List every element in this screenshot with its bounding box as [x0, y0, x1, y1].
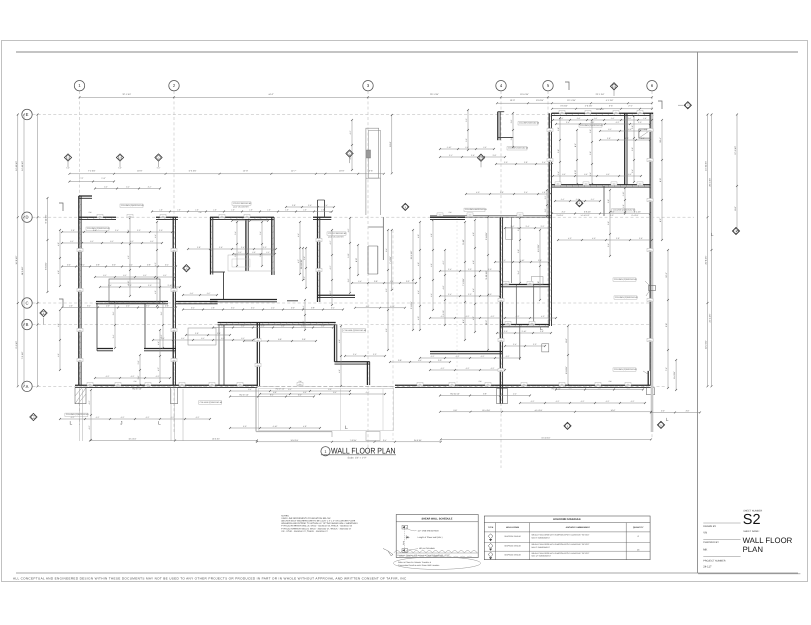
svg-text:3'-4": 3'-4" — [108, 284, 112, 287]
svg-text:3'-2": 3'-2" — [468, 268, 472, 271]
svg-text:4'-2": 4'-2" — [491, 367, 495, 370]
dim col left x47 — [47, 198, 49, 292]
svg-text:C: C — [25, 301, 28, 306]
svg-text:4'-2": 4'-2" — [472, 316, 475, 320]
shear wall tag 12 — [30, 413, 37, 420]
svg-text:600: 600 — [585, 182, 588, 185]
svg-text:3'-6": 3'-6" — [517, 249, 520, 253]
svg-text:600: 600 — [627, 383, 630, 386]
svg-text:3'-4": 3'-4" — [607, 243, 610, 247]
legend refer cloud — [394, 557, 481, 569]
svg-text:4'-2": 4'-2" — [606, 400, 610, 403]
svg-text:600: 600 — [246, 215, 249, 218]
svg-text:3'-2": 3'-2" — [143, 274, 147, 277]
grid line D — [33, 216, 695, 218]
svg-text:1'-8": 1'-8" — [321, 209, 325, 212]
svg-text:8'-6": 8'-6" — [303, 391, 307, 394]
svg-text:HD per Schedule: HD per Schedule — [419, 547, 436, 550]
svg-text:4'-6 3/4": 4'-6 3/4" — [585, 105, 593, 108]
svg-text:2'-1": 2'-1" — [449, 154, 453, 157]
svg-text:4'-0": 4'-0" — [476, 191, 480, 194]
svg-text:5'-4": 5'-4" — [87, 305, 91, 308]
svg-text:5/8-DIA F1554 GR36 WITH SIMPSO: 5/8-DIA F1554 GR36 WITH SIMPSON EPOXY AD… — [532, 534, 590, 537]
svg-text:600: 600 — [561, 383, 564, 386]
bath fixture 2 — [506, 228, 513, 240]
svg-text:20'-2 3/4": 20'-2 3/4" — [705, 340, 708, 349]
interior wall x145 — [144, 303, 146, 349]
interior wall vertical x224 — [223, 325, 225, 386]
svg-text:600: 600 — [318, 239, 321, 242]
svg-text:4'-0": 4'-0" — [347, 228, 350, 232]
svg-text:4'-8": 4'-8" — [303, 425, 307, 428]
label column nook — [343, 329, 366, 332]
svg-text:3'-2": 3'-2" — [110, 240, 114, 243]
svg-text:1'-8": 1'-8" — [622, 204, 625, 208]
svg-text:6'-4": 6'-4" — [462, 319, 465, 323]
svg-text:600: 600 — [587, 111, 590, 114]
svg-text:10'-2": 10'-2" — [485, 320, 488, 326]
svg-text:600: 600 — [500, 339, 503, 342]
svg-text:10'-0 3/4": 10'-0 3/4" — [290, 439, 298, 442]
svg-text:6'-4": 6'-4" — [248, 388, 252, 391]
svg-text:3'-6": 3'-6" — [160, 311, 163, 315]
svg-text:29'-1 3/4": 29'-1 3/4" — [430, 93, 439, 96]
svg-text:4'-2": 4'-2" — [106, 375, 110, 378]
svg-text:2'-4": 2'-4" — [628, 105, 632, 108]
svg-text:2'-4": 2'-4" — [331, 307, 335, 310]
svg-text:5'-8": 5'-8" — [278, 338, 282, 341]
svg-text:14'-0 3/4": 14'-0 3/4" — [15, 255, 18, 264]
svg-text:4'-2": 4'-2" — [581, 400, 585, 403]
svg-text:4'-6": 4'-6" — [57, 270, 60, 274]
svg-text:4'-2": 4'-2" — [466, 367, 470, 370]
interior wall vertical x97 — [96, 303, 98, 351]
small box y344 — [542, 344, 549, 352]
right wing left wall grid5 — [548, 113, 550, 326]
dim noise rows — [556, 123, 650, 125]
svg-text:5'-0": 5'-0" — [243, 425, 247, 428]
exterior wall left (grid 1) — [78, 196, 80, 386]
svg-text:3'-0": 3'-0" — [321, 325, 325, 328]
svg-text:RW 34'-10": RW 34'-10" — [450, 393, 460, 396]
bracket mark 2 — [658, 101, 662, 109]
svg-text:3'-0": 3'-0" — [488, 268, 492, 271]
svg-text:4'-2": 4'-2" — [171, 416, 175, 419]
grid line 2 — [173, 91, 175, 432]
svg-text:8'-9 3/4": 8'-9 3/4" — [536, 99, 544, 102]
svg-text:1'-8": 1'-8" — [285, 209, 289, 212]
svg-text:4'-4": 4'-4" — [430, 293, 433, 297]
svg-text:3'-4": 3'-4" — [241, 246, 245, 249]
svg-text:2'-4": 2'-4" — [561, 198, 565, 201]
svg-text:SW: SW — [609, 380, 612, 383]
nook wall vertical x336 — [334, 325, 336, 362]
svg-text:2'-6": 2'-6" — [510, 136, 513, 140]
svg-text:5'-8": 5'-8" — [483, 393, 487, 396]
svg-text:600: 600 — [239, 383, 242, 386]
grid bubble 2 — [169, 81, 179, 91]
svg-text:3'-0": 3'-0" — [502, 259, 506, 262]
footing grid2 corner — [171, 388, 178, 404]
svg-text:4'-0": 4'-0" — [417, 316, 420, 320]
svg-text:600: 600 — [549, 129, 552, 132]
svg-text:1'-8": 1'-8" — [159, 209, 163, 212]
svg-text:600: 600 — [649, 299, 652, 302]
svg-text:4'-2": 4'-2" — [349, 130, 352, 134]
dim col x489 — [487, 217, 489, 350]
svg-text:COLUMN H600S162-43: COLUMN H600S162-43 — [465, 208, 487, 211]
svg-text:3'-4": 3'-4" — [524, 191, 528, 194]
svg-text:5'-0": 5'-0" — [66, 167, 70, 170]
svg-text:7'-0 3/4": 7'-0 3/4" — [350, 439, 357, 442]
svg-text:14'-10 1/2": 14'-10 1/2" — [580, 214, 589, 217]
svg-text:4'-0": 4'-0" — [592, 237, 596, 240]
svg-text:8'-4": 8'-4" — [574, 143, 577, 147]
svg-text:2'-0": 2'-0" — [638, 121, 642, 124]
svg-text:2'-4": 2'-4" — [542, 161, 546, 164]
svg-text:3'-6": 3'-6" — [217, 332, 221, 335]
label column 4 top — [518, 122, 538, 125]
svg-text:6'-0": 6'-0" — [328, 388, 332, 391]
grid bubble 5 — [543, 81, 553, 91]
svg-text:28'-4 3/4": 28'-4 3/4" — [709, 178, 712, 187]
svg-text:4'-1 3/4": 4'-1 3/4" — [606, 99, 614, 102]
svg-text:3'-4": 3'-4" — [557, 171, 560, 175]
svg-text:600: 600 — [507, 322, 510, 325]
dim col x391 upper — [391, 115, 393, 173]
footing right corner — [647, 388, 655, 395]
svg-text:SW: SW — [479, 380, 482, 383]
label column 4b — [507, 147, 527, 150]
svg-text:3'-8": 3'-8" — [517, 227, 520, 231]
svg-text:3'-4": 3'-4" — [259, 231, 262, 235]
svg-text:2'-8": 2'-8" — [611, 117, 615, 120]
grid line C — [33, 302, 651, 304]
grid bubble C — [22, 298, 32, 308]
svg-text:2'-8": 2'-8" — [292, 204, 296, 207]
svg-text:3'-4": 3'-4" — [448, 293, 452, 296]
svg-text:1'-8": 1'-8" — [177, 209, 181, 212]
svg-text:2'-2": 2'-2" — [266, 251, 270, 254]
svg-text:3'-4": 3'-4" — [448, 268, 452, 271]
svg-text:A: A — [26, 384, 29, 389]
svg-text:1'-8": 1'-8" — [303, 209, 307, 212]
svg-text:16'-10 3/4": 16'-10 3/4" — [300, 259, 303, 269]
wall row C segment2 — [176, 301, 218, 303]
bath closet wall x516 — [515, 285, 517, 325]
svg-text:9'-8": 9'-8" — [665, 323, 668, 327]
svg-text:6'-2": 6'-2" — [288, 388, 292, 391]
svg-text:5'-0": 5'-0" — [118, 167, 122, 170]
svg-text:16'-4 3/4": 16'-4 3/4" — [129, 438, 137, 441]
footing left corner — [75, 388, 86, 404]
schedule legend tag 1 — [402, 525, 408, 529]
exterior wall row D segment 3 — [210, 216, 274, 218]
grid bubble 1 — [74, 81, 84, 91]
svg-text:3'-0": 3'-0" — [488, 293, 492, 296]
svg-text:1'-8": 1'-8" — [542, 191, 546, 194]
svg-text:3'-4": 3'-4" — [231, 307, 235, 310]
svg-text:3'-2": 3'-2" — [259, 253, 262, 257]
svg-text:3'-6": 3'-6" — [219, 246, 223, 249]
svg-text:8'-0 3/4": 8'-0 3/4" — [565, 366, 568, 374]
svg-text:1'-8": 1'-8" — [267, 209, 271, 212]
svg-text:3'-8": 3'-8" — [347, 278, 350, 282]
shear wall tag 3 — [155, 154, 162, 161]
svg-text:10'-4": 10'-4" — [659, 137, 662, 143]
svg-text:2'-10": 2'-10" — [447, 146, 452, 149]
svg-text:10'-0": 10'-0" — [510, 99, 516, 102]
svg-text:CHECKED BY: CHECKED BY — [703, 541, 719, 544]
svg-text:2'-8": 2'-8" — [398, 359, 402, 362]
right wing right wall grid6 — [649, 113, 651, 371]
svg-text:3'-4": 3'-4" — [513, 343, 517, 346]
svg-text:2'-8 3/4": 2'-8 3/4" — [557, 214, 564, 217]
dim col right x737 — [736, 115, 738, 232]
svg-text:600: 600 — [99, 215, 102, 218]
svg-text:4'-2": 4'-2" — [431, 355, 435, 358]
legend hd leader — [408, 549, 418, 550]
dim col right wing inner — [661, 120, 663, 240]
svg-text:3'-4": 3'-4" — [303, 256, 306, 260]
svg-text:4'-0": 4'-0" — [366, 305, 370, 308]
svg-text:7'-2 3/4": 7'-2 3/4" — [88, 169, 96, 172]
svg-text:2'-6": 2'-6" — [511, 225, 515, 228]
svg-text:4'-4": 4'-4" — [472, 288, 475, 292]
svg-text:COLUMN (2)350S162-43: COLUMN (2)350S162-43 — [614, 278, 637, 281]
svg-text:24'-10 3/4": 24'-10 3/4" — [21, 161, 24, 171]
svg-text:3'-6": 3'-6" — [631, 147, 634, 151]
svg-text:STUDS 350S162-43: STUDS 350S162-43 — [328, 232, 347, 235]
grid bubble B — [22, 319, 32, 329]
svg-text:10'-0": 10'-0" — [137, 169, 143, 172]
svg-text:2'-8": 2'-8" — [147, 264, 151, 267]
svg-text:MIN 6" EMBEDMENT: MIN 6" EMBEDMENT — [532, 536, 551, 539]
wall notch vertical x224 down — [223, 272, 225, 300]
svg-text:2'-4": 2'-4" — [251, 307, 255, 310]
dim row y268 left — [62, 266, 176, 268]
svg-text:4'-6": 4'-6" — [430, 263, 433, 267]
svg-text:4'-2": 4'-2" — [121, 416, 125, 419]
kitchen island — [188, 328, 216, 345]
foundation gray band grid6 — [651, 114, 654, 432]
exterior wall row D segment 4 — [313, 216, 331, 218]
svg-text:TYPICAL EXTERIOR WALLS: STUD -: TYPICAL EXTERIOR WALLS: STUD - 600S162-4… — [281, 525, 353, 528]
svg-text:8'-9": 8'-9" — [273, 391, 277, 394]
svg-text:1: 1 — [158, 156, 159, 159]
svg-text:MIN 6" EMBEDMENT: MIN 6" EMBEDMENT — [532, 546, 551, 549]
svg-text:600: 600 — [439, 213, 442, 216]
svg-text:3'-8": 3'-8" — [607, 199, 610, 203]
svg-text:3'-4": 3'-4" — [631, 169, 634, 173]
nook wall horizontal y363 — [335, 361, 370, 363]
svg-text:2'-8": 2'-8" — [643, 117, 647, 120]
svg-text:2'-10": 2'-10" — [522, 330, 527, 333]
svg-text:8'-0": 8'-0" — [734, 206, 737, 210]
grid line 4 — [500, 91, 502, 468]
dim row bottom left — [90, 440, 257, 442]
label column 56 top — [579, 124, 602, 127]
right wing interior wall y186 — [552, 184, 653, 186]
svg-text:4'-4": 4'-4" — [154, 234, 157, 238]
svg-text:4'-4": 4'-4" — [417, 290, 420, 294]
svg-text:3'-2": 3'-2" — [163, 274, 167, 277]
grid bubble A — [22, 381, 32, 391]
svg-text:ANCHOR BOLT WASHERS ARE TO BE: ANCHOR BOLT WASHERS ARE TO BE 0.229" x 3… — [281, 520, 356, 523]
svg-text:STUDS 350S162-43: STUDS 350S162-43 — [233, 202, 252, 205]
grid4 wall stub horizontal — [498, 137, 514, 139]
legend fastener rule — [396, 552, 478, 554]
svg-text:3'-0": 3'-0" — [159, 229, 163, 232]
svg-text:2'-6": 2'-6" — [137, 375, 140, 379]
svg-text:PLAN: PLAN — [743, 545, 763, 554]
label column D1 — [120, 204, 143, 207]
svg-text:3'-6": 3'-6" — [471, 154, 475, 157]
dim row bottom long — [441, 438, 651, 440]
svg-text:24-117: 24-117 — [703, 566, 712, 569]
svg-text:10'-0 3/4": 10'-0 3/4" — [212, 438, 220, 441]
svg-text:4'-0": 4'-0" — [127, 255, 130, 259]
svg-text:10'-1 3/4": 10'-1 3/4" — [567, 99, 576, 102]
right wing interior wall x626 — [624, 113, 626, 185]
svg-text:3'-2": 3'-2" — [533, 343, 537, 346]
svg-text:2'-2": 2'-2" — [544, 195, 547, 199]
svg-text:9'-0 3/4": 9'-0 3/4" — [410, 301, 413, 309]
svg-text:10'-0": 10'-0" — [339, 169, 345, 172]
svg-text:4'-2": 4'-2" — [127, 229, 130, 233]
grid line 5 — [547, 91, 549, 330]
svg-text:S2: S2 — [743, 512, 761, 528]
svg-text:2'-8": 2'-8" — [560, 117, 564, 120]
svg-text:3'-8": 3'-8" — [197, 246, 201, 249]
bath wall x512 — [511, 217, 513, 283]
svg-text:600: 600 — [597, 383, 600, 386]
svg-text:6'-8 3/4": 6'-8 3/4" — [45, 262, 48, 270]
bath fixture box — [531, 277, 543, 285]
svg-text:7'-2 3/4": 7'-2 3/4" — [21, 351, 24, 359]
svg-text:2'-8": 2'-8" — [465, 146, 469, 149]
svg-text:8'-4": 8'-4" — [333, 391, 337, 394]
svg-text:600: 600 — [519, 213, 522, 216]
svg-text:3'-4": 3'-4" — [517, 270, 520, 274]
svg-text:7'-4": 7'-4" — [665, 367, 668, 371]
svg-text:2'-0": 2'-0" — [544, 208, 547, 212]
dim col x676 bottom — [675, 360, 677, 390]
svg-text:COLUMN 600S162-43: COLUMN 600S162-43 — [508, 147, 529, 150]
svg-text:9'-8 3/4": 9'-8 3/4" — [485, 232, 488, 240]
svg-text:RW 37'-10": RW 37'-10" — [132, 387, 142, 390]
svg-text:3'-6": 3'-6" — [607, 221, 610, 225]
svg-text:3'-4": 3'-4" — [129, 264, 133, 267]
grid line B — [33, 324, 651, 326]
svg-text:11'-4 3/4": 11'-4 3/4" — [410, 250, 413, 259]
svg-text:4'-8": 4'-8" — [537, 281, 540, 285]
dim col right x707 — [707, 115, 709, 387]
svg-text:2'-4": 2'-4" — [191, 307, 195, 310]
svg-text:4'-8": 4'-8" — [569, 387, 573, 390]
interior wall y350 seg2 — [144, 348, 176, 350]
wall notch vertical at x211 — [210, 217, 212, 274]
connector box grid6 — [649, 286, 656, 291]
svg-text:2'-6": 2'-6" — [165, 305, 169, 308]
shear wall tag 13 — [564, 422, 571, 429]
svg-text:6'-4 3/4": 6'-4 3/4" — [673, 371, 676, 379]
svg-text:5'-10": 5'-10" — [462, 239, 465, 245]
svg-text:3'-0": 3'-0" — [574, 170, 577, 174]
grid line 6 — [651, 91, 653, 438]
svg-text:MK: MK — [703, 548, 707, 551]
svg-text:600: 600 — [639, 182, 642, 185]
svg-text:600: 600 — [561, 111, 564, 114]
svg-text:24'-9 3/4": 24'-9 3/4" — [414, 439, 422, 442]
svg-text:1'-6": 1'-6" — [390, 280, 394, 283]
svg-text:4'-0": 4'-0" — [106, 305, 110, 308]
svg-text:600: 600 — [529, 282, 532, 285]
legend leader to osb — [408, 529, 417, 531]
svg-text:B: B — [26, 322, 29, 327]
svg-text:600: 600 — [173, 329, 176, 332]
dim row y187 right wing lower — [552, 213, 650, 215]
exterior wall row A right — [395, 384, 651, 386]
svg-text:4'-4": 4'-4" — [126, 305, 130, 308]
svg-text:600: 600 — [79, 329, 82, 332]
interior wall x520 below B — [519, 325, 521, 360]
svg-text:600: 600 — [549, 159, 552, 162]
legend fastener cloud — [394, 551, 477, 553]
svg-text:3'-8": 3'-8" — [71, 229, 75, 232]
wall stud callout boxes — [97, 214, 103, 217]
svg-text:24'-10 3/4": 24'-10 3/4" — [15, 161, 18, 171]
svg-text:3'-4": 3'-4" — [146, 305, 150, 308]
svg-text:600: 600 — [257, 339, 260, 342]
dashed line x393 — [392, 230, 394, 440]
svg-text:6'-0": 6'-0" — [366, 391, 370, 394]
svg-text:4'-2": 4'-2" — [466, 315, 470, 318]
svg-text:3'-5": 3'-5" — [609, 105, 613, 108]
svg-text:600: 600 — [500, 369, 503, 372]
svg-text:3'-2": 3'-2" — [241, 337, 245, 340]
svg-text:5'-3 3/4": 5'-3 3/4" — [189, 169, 197, 172]
bracket mark 1 — [565, 82, 569, 90]
shear wall tag 9 — [183, 265, 190, 272]
svg-text:HOLD-DOWN: HOLD-DOWN — [506, 526, 520, 529]
dim row y363 right — [390, 361, 450, 363]
svg-text:6'-0": 6'-0" — [385, 328, 388, 332]
svg-text:4'-8": 4'-8" — [57, 242, 60, 246]
dim row y342 center — [244, 340, 316, 342]
svg-text:1: 1 — [349, 152, 350, 155]
dim row bottom garage — [257, 441, 441, 443]
svg-text:3'-10": 3'-10" — [442, 310, 445, 315]
svg-text:4'-2": 4'-2" — [96, 416, 100, 419]
svg-text:3'-4": 3'-4" — [234, 231, 237, 235]
svg-text:SHEET NAME:: SHEET NAME: — [743, 530, 759, 533]
svg-text:2'-8": 2'-8" — [190, 292, 194, 295]
svg-text:2'-4": 2'-4" — [324, 204, 328, 207]
svg-text:2'-3": 2'-3" — [79, 177, 83, 180]
garage pad — [366, 432, 380, 441]
dim noise rows batch2 — [260, 393, 385, 395]
dim row far right bottom — [651, 411, 700, 413]
svg-text:3'-2": 3'-2" — [181, 337, 185, 340]
svg-text:2'-0": 2'-0" — [291, 307, 295, 310]
wall notch horizontal y272 — [211, 271, 226, 273]
svg-text:6'-4": 6'-4" — [385, 248, 388, 252]
svg-text:COLUMN 600S162-43: COLUMN 600S162-43 — [519, 122, 540, 125]
svg-text:2'-8": 2'-8" — [96, 264, 100, 267]
svg-text:4'-6": 4'-6" — [338, 369, 341, 373]
svg-text:Scale: 1/4" = 1'-0": Scale: 1/4" = 1'-0" — [348, 456, 367, 459]
